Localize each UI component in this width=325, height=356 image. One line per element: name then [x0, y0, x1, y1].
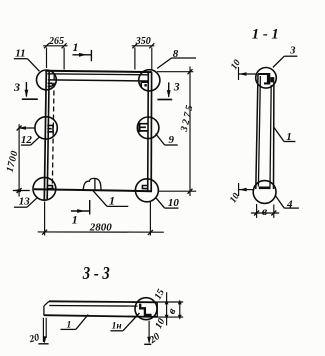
dimension 10 (top, section 1-1) [239, 67, 258, 80]
joint 11 inner cleat detail [48, 83, 53, 86]
svg-text:3 - 3: 3 - 3 [82, 263, 110, 283]
label 3 with shelf and leader [273, 56, 298, 67]
dimension 3275 [157, 67, 196, 197]
label 10 with shelf and leader [156, 198, 179, 209]
svg-text:4: 4 [286, 198, 293, 210]
section 3-3 channel member body [44, 301, 158, 317]
joint 8 inner cleat detail [141, 82, 148, 87]
detail circle 12 (mid-left joint) [35, 117, 57, 139]
section mark 3 (left) [22, 82, 38, 99]
label 13 with shelf and leader [14, 198, 37, 207]
detail circle 3 (top of section 1-1) [256, 68, 277, 89]
svg-text:1: 1 [286, 131, 292, 143]
section 1-1 channel member body [256, 74, 274, 189]
svg-text:10: 10 [228, 191, 242, 205]
svg-text:1: 1 [109, 194, 115, 208]
section 1-1 top hook detail 3 [258, 73, 274, 85]
svg-text:1: 1 [73, 40, 79, 54]
section 1-1 member bottom closed end [259, 187, 271, 190]
joint 13 inner cleat detail [47, 185, 54, 189]
svg-text:10: 10 [153, 317, 167, 331]
svg-text:1 - 1: 1 - 1 [252, 26, 279, 42]
svg-text:3: 3 [289, 44, 296, 56]
label 12 with shelf and leader [21, 137, 40, 145]
dimension 10 (bottom, section 1-1) [239, 183, 255, 196]
label 1 (section 1-1 member) [273, 127, 295, 142]
svg-text:3: 3 [13, 80, 20, 94]
section mark 3 (right) [157, 82, 172, 99]
svg-text:1: 1 [72, 213, 78, 227]
section mark 1 (top) [73, 50, 92, 61]
svg-text:3: 3 [173, 81, 180, 93]
svg-text:15: 15 [153, 287, 167, 301]
label 8 with shelf and leader [157, 58, 196, 68]
label 1н with shelf and leader [110, 313, 139, 331]
svg-text:11: 11 [15, 47, 25, 59]
svg-text:350: 350 [135, 36, 151, 47]
label 11 with shelf and leader [14, 59, 40, 72]
detail circle 10 (bottom-right joint) [135, 179, 158, 202]
svg-text:10: 10 [229, 58, 243, 72]
left column member (vertical, plan) [44, 71, 49, 200]
svg-text:10: 10 [168, 197, 180, 209]
dimension 20 (left, section 3-3) [38, 318, 48, 344]
top chord member (horizontal channel, plan) [45, 71, 152, 81]
svg-text:13: 13 [19, 196, 31, 208]
svg-text:8: 8 [173, 48, 179, 60]
svg-text:3275: 3275 [179, 102, 196, 134]
dimension 265 [43, 43, 67, 69]
right column member (vertical, plan) [148, 72, 152, 191]
detail circle 13 (bottom-left joint) [33, 177, 56, 200]
svg-text:1: 1 [67, 321, 72, 331]
detail circle 9 (mid-right joint) [137, 117, 159, 139]
dimension lines right end of 3-3 (15 / в / 10) [158, 292, 184, 325]
dimension 2800 [38, 202, 164, 236]
left column hidden dashed line [52, 75, 54, 188]
detail circle 11 (top-left joint) [37, 70, 57, 90]
section mark 1 (bottom) [71, 200, 90, 215]
hook detail inside circle [140, 304, 151, 315]
detail circle 1н (right end of section 3-3) [135, 298, 157, 320]
detail circle 4 (bottom of section 1-1) [253, 181, 276, 204]
dimension 350 [132, 43, 155, 70]
dimension B (bottom, section 1-1) [251, 204, 279, 218]
lifting lug hump on bottom chord [83, 178, 101, 189]
bottom chord line (plan) [34, 189, 152, 191]
dimension 1700 [13, 124, 36, 196]
label 9 with shelf and leader [156, 134, 178, 145]
svg-text:1н: 1н [112, 322, 122, 332]
svg-text:9: 9 [168, 134, 174, 146]
label 1 (section 3-3 member) [61, 315, 89, 330]
joint 10 inner cleat detail [142, 185, 147, 190]
joint 9 inner cleat detail [139, 123, 148, 132]
label 4 with shelf and leader [276, 196, 299, 208]
leader + label 1 (plan lug) [93, 190, 129, 206]
svg-text:1700: 1700 [5, 149, 21, 173]
svg-text:2800: 2800 [89, 221, 113, 233]
joint 12 inner cleat detail [47, 125, 53, 134]
svg-text:в: в [262, 204, 268, 218]
detail circle 8 (top-right joint) [139, 70, 160, 91]
svg-text:265: 265 [48, 36, 64, 47]
dimension 20 (right, section 3-3) [144, 321, 151, 345]
svg-text:в: в [166, 306, 179, 316]
svg-text:12: 12 [21, 134, 33, 146]
